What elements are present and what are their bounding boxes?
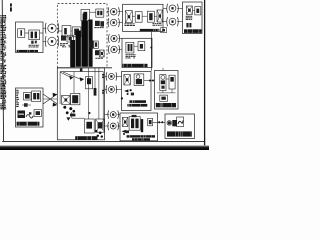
- block R4 cluster: [100, 50, 105, 57]
- wire A1-A2: [25, 32, 29, 34]
- block L9: [34, 110, 42, 117]
- wire to J4: [107, 22, 109, 24]
- wire K to J7: [163, 7, 167, 9]
- wire J11 right: [117, 114, 120, 116]
- connector J3: [110, 8, 117, 15]
- label band K: [140, 29, 160, 31]
- wire SE1-SE2: [166, 78, 169, 80]
- label band Y: [184, 29, 202, 33]
- small marks L mid: [22, 104, 31, 106]
- line in SE: [157, 92, 176, 94]
- wire J11 left: [105, 114, 110, 116]
- block L1 left pair: [62, 26, 71, 37]
- box Y (antenna group): [183, 2, 203, 34]
- cluster C arrows: [124, 89, 128, 92]
- block T1 top: [81, 10, 90, 21]
- edge dots right lower: [102, 90, 104, 92]
- diagonal feeder 1: [60, 72, 71, 77]
- dashed enclosure (receiver-transmitter group): [57, 4, 107, 68]
- crossing wire 2: [43, 94, 57, 104]
- topper CP2: [132, 115, 137, 117]
- junction dot: [150, 47, 152, 49]
- cable bar 3: [81, 21, 88, 67]
- box E (rf amplifier): [122, 38, 152, 67]
- bottom page border: [2, 140, 205, 142]
- block TB1: [167, 121, 172, 126]
- squiggle L8: [26, 115, 33, 118]
- small box M1: [86, 77, 93, 89]
- block K2: [135, 12, 142, 23]
- wire J9 left: [105, 75, 108, 77]
- box L (power control): [16, 88, 44, 127]
- wire CP to TB: [158, 121, 166, 123]
- edge dots right upper: [102, 74, 104, 76]
- box M4: [71, 93, 80, 104]
- block E2: [138, 42, 145, 51]
- box TB (battery box): [165, 114, 195, 139]
- wire into L1: [57, 30, 62, 32]
- connector J2: [48, 37, 56, 45]
- label band E: [123, 64, 148, 67]
- block L2 left pair: [72, 27, 81, 37]
- block SE3: [160, 95, 168, 101]
- block SE2: [169, 75, 175, 89]
- box C (receiver): [122, 72, 152, 111]
- cluster bottom right M: [95, 130, 98, 133]
- block R3 cluster: [95, 50, 99, 55]
- label band L: [17, 122, 40, 126]
- junction dot M: [88, 112, 90, 114]
- bus line: [57, 67, 112, 69]
- block SE1: [160, 75, 166, 91]
- label band M: [75, 136, 97, 139]
- wire M horizontal: [72, 117, 85, 119]
- stub SE top: [162, 68, 164, 71]
- wire C to SE with dots: [144, 80, 155, 82]
- wire J12 right: [117, 125, 120, 127]
- wire J8 to Y box: [177, 21, 182, 23]
- crossing wire 1: [43, 94, 57, 104]
- riser x103.2: [102, 72, 104, 130]
- wire E1-E2: [134, 45, 138, 47]
- block E1: [126, 42, 134, 53]
- left margin vertical text column: [0, 15, 6, 110]
- label band TB: [167, 131, 192, 136]
- small box at K bottom-right corner: [161, 28, 167, 33]
- block Y1: [186, 6, 192, 14]
- wire J9 right: [116, 75, 122, 77]
- wire K to J8: [163, 21, 167, 23]
- block L6: [32, 91, 41, 102]
- block L3 lower-left: [61, 35, 66, 40]
- cable bar 4: [88, 20, 92, 67]
- wire B1 to J2: [43, 40, 46, 42]
- right page border: [204, 0, 206, 146]
- crossing wire 3: [43, 98, 57, 100]
- label band CP (2 lines): [127, 135, 155, 137]
- cable bar 1: [70, 40, 75, 67]
- mini blocks Y: [186, 23, 188, 27]
- block R2 right-mid: [94, 41, 98, 48]
- block K4: [157, 10, 163, 22]
- block R1 right-mid: [89, 40, 93, 48]
- wires K1-K4: [132, 15, 135, 17]
- crossing arrowheads: [53, 93, 58, 97]
- component A1 in B1: [18, 29, 25, 38]
- tiny text in B1: [29, 45, 40, 48]
- block Y2: [195, 7, 201, 15]
- bus tick: [80, 68, 83, 71]
- arrows CP: [122, 130, 126, 133]
- small marks under A2: [31, 41, 33, 44]
- label band SE: [156, 103, 176, 107]
- component A2 in B1: [29, 30, 40, 40]
- block TB2: [172, 120, 177, 126]
- riser x98.9: [98, 68, 100, 119]
- top-left margin mark: [10, 3, 12, 6]
- wire L1-L2: [71, 30, 72, 32]
- box M (modulator deck): [57, 68, 104, 140]
- box B1 (speaker unit): [16, 22, 44, 53]
- wire J3 to K box: [118, 11, 122, 13]
- cable bar 2: [76, 31, 81, 67]
- label band B1: [17, 50, 38, 52]
- wire J1 to dashed unit: [57, 27, 60, 29]
- wire J10 right: [116, 88, 122, 90]
- wire B1 right: [40, 32, 44, 34]
- wire J10 left: [105, 88, 108, 90]
- riser x95: [94, 68, 96, 88]
- label band C (2 lines): [129, 100, 146, 103]
- box K (control group): [123, 4, 163, 31]
- block CP1: [122, 117, 128, 126]
- box SE (power supply): [155, 71, 179, 110]
- tiny text K right: [153, 23, 162, 25]
- tiny text left cluster: [60, 43, 72, 47]
- riser x74: [73, 72, 75, 94]
- block L4 lower-left: [67, 35, 73, 42]
- riser x88.6: [88, 68, 90, 119]
- cluster under T2: [95, 21, 100, 26]
- block K3: [147, 11, 154, 22]
- connector J7: [169, 5, 176, 12]
- wire J6 to E box: [118, 49, 122, 51]
- block CP2: [129, 117, 140, 131]
- wire to J3: [107, 11, 109, 13]
- connector J4: [110, 19, 117, 26]
- wire J12 left: [105, 125, 110, 127]
- dark component M2: [94, 88, 97, 96]
- connector J9: [108, 73, 114, 79]
- connector J5: [111, 35, 117, 41]
- left page border: [2, 0, 3, 141]
- junction dot at C left: [121, 97, 123, 99]
- wire CP4 out: [153, 121, 158, 123]
- wire T1-T2: [90, 11, 96, 13]
- wire Y1-Y2: [192, 9, 194, 11]
- block C2: [134, 74, 144, 86]
- block TB3: [177, 117, 184, 127]
- wire K bottom to C/SE: [150, 32, 152, 71]
- connector J1: [48, 24, 56, 32]
- block CP4: [148, 118, 153, 125]
- block L7: [18, 111, 26, 119]
- dark bar CP3: [141, 119, 143, 132]
- tiny text Y: [186, 16, 193, 20]
- connector J12: [110, 123, 116, 129]
- block T2 top-right: [96, 9, 104, 17]
- wire J5 to E box: [118, 38, 122, 40]
- box M5: [84, 119, 94, 133]
- vertical text strip L: [16, 90, 19, 107]
- connector J10: [108, 86, 114, 92]
- connector J8: [169, 18, 176, 25]
- box CP (control-power unit): [120, 113, 158, 141]
- diagonal feeder 2: [63, 72, 81, 79]
- cluster under M3/M4: [63, 106, 66, 109]
- block C1: [124, 75, 130, 86]
- box M3 with X: [62, 96, 71, 105]
- wire B1 to J1: [43, 27, 46, 29]
- bus line 2: [60, 71, 103, 73]
- tiny text E: [126, 54, 136, 58]
- box M6 with X: [96, 119, 105, 132]
- riser x60: [59, 72, 61, 104]
- connector J6: [111, 46, 117, 52]
- tiny text K left: [124, 23, 134, 26]
- block K1: [125, 11, 132, 23]
- connector J11: [110, 112, 116, 118]
- block L5: [24, 93, 32, 101]
- wire J7 to Y box: [177, 7, 182, 9]
- wire J4 to K box: [118, 22, 122, 24]
